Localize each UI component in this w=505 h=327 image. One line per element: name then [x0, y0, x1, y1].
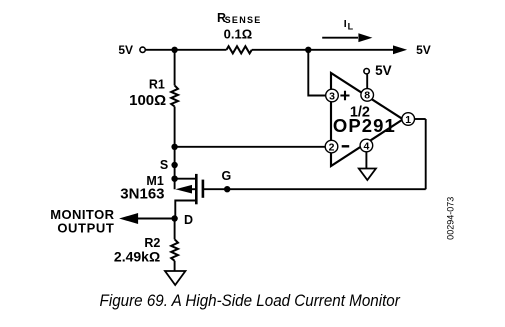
svg-text:3: 3 — [329, 90, 335, 102]
svg-text:2: 2 — [329, 141, 335, 153]
svg-text:SENSE: SENSE — [225, 15, 262, 25]
svg-text:D: D — [184, 213, 193, 227]
svg-text:OP291: OP291 — [333, 115, 396, 136]
svg-text:100Ω: 100Ω — [129, 92, 166, 109]
svg-text:00294-073: 00294-073 — [446, 197, 456, 240]
svg-text:8: 8 — [364, 90, 370, 102]
svg-text:L: L — [348, 22, 354, 32]
svg-text:2.49kΩ: 2.49kΩ — [114, 249, 160, 265]
svg-text:5V: 5V — [416, 43, 431, 57]
svg-text:I: I — [344, 18, 347, 30]
svg-text:OUTPUT: OUTPUT — [57, 221, 114, 236]
svg-text:1: 1 — [405, 114, 411, 126]
svg-text:5V: 5V — [375, 63, 392, 78]
svg-text:3N163: 3N163 — [120, 186, 164, 203]
svg-text:0.1Ω: 0.1Ω — [224, 27, 253, 42]
svg-text:R1: R1 — [149, 77, 165, 91]
svg-text:Figure 69. A High-Side Load Cu: Figure 69. A High-Side Load Current Moni… — [100, 291, 401, 310]
svg-text:5V: 5V — [118, 43, 133, 57]
svg-text:S: S — [160, 158, 168, 172]
svg-text:4: 4 — [363, 140, 369, 152]
svg-text:G: G — [221, 169, 231, 183]
